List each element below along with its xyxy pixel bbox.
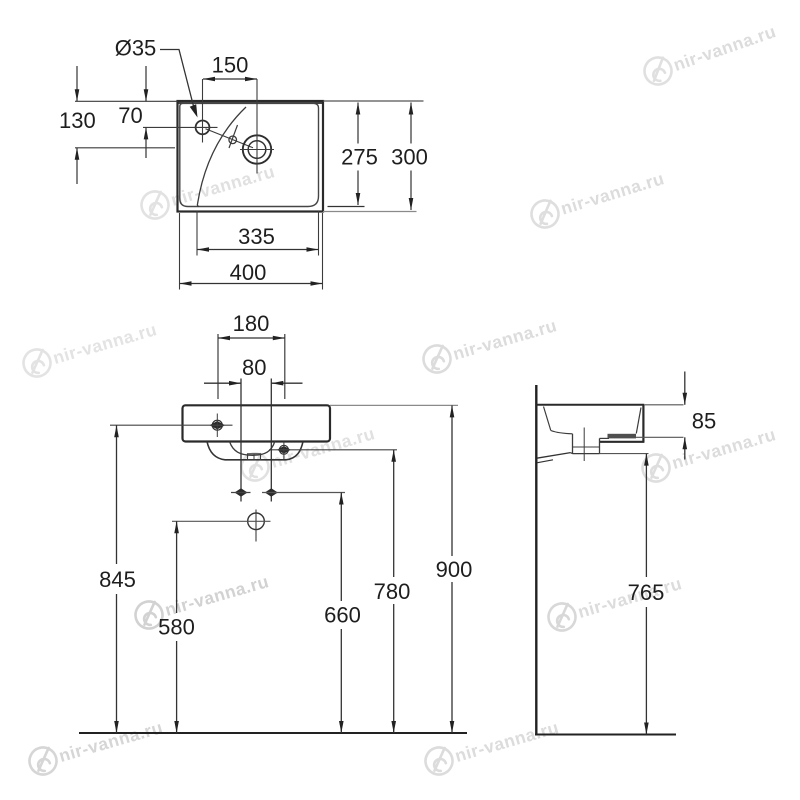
ext line bowl-left down <box>196 211 198 256</box>
dim 150 right arrow <box>245 77 257 82</box>
inner left wall side <box>544 407 551 431</box>
dim 300 line <box>410 103 412 144</box>
faucet hole vertical centerline / extension to 150 dim <box>202 79 204 143</box>
svg-text:660: 660 <box>324 602 361 627</box>
svg-text:900: 900 <box>436 557 473 582</box>
drain seal dark bar <box>608 434 637 439</box>
watermark 8 <box>545 570 685 634</box>
dim 80 left arrow <box>204 382 241 384</box>
dim 70 bottom arrow <box>145 127 147 158</box>
watermark 1 <box>641 18 780 88</box>
faucet hole marker front <box>212 420 222 430</box>
top edge extension right <box>323 100 424 102</box>
180 dim extension left <box>217 334 219 399</box>
floor line side <box>535 734 676 736</box>
dim 275 line <box>357 103 359 144</box>
svg-text:180: 180 <box>233 311 270 336</box>
svg-text:275: 275 <box>341 144 378 169</box>
basin outer rect (plan) <box>178 101 324 212</box>
SIDEVIEW <box>535 372 716 735</box>
drain pipe left wall <box>572 434 574 454</box>
drain outlet circle front <box>248 513 265 530</box>
wall line <box>535 385 537 735</box>
ext line outer-left down <box>179 213 181 290</box>
drain inner circle <box>248 141 266 159</box>
basin inner rim (plan) <box>180 103 319 206</box>
Ø35 leader arrowhead <box>190 104 198 117</box>
drain outlet vertical centerline <box>255 510 257 542</box>
Ø35 leader line <box>160 50 195 111</box>
drain vertical centerline / extension to 150 dim <box>256 79 258 174</box>
bolt hole line / 660 reference <box>262 492 345 494</box>
ext line outer-right down <box>322 213 324 290</box>
inner bottom reference right <box>328 206 365 208</box>
svg-text:70: 70 <box>118 103 142 128</box>
inner right wall side <box>636 408 641 434</box>
dim 85 top arrow <box>684 372 686 405</box>
drain pipe right wall <box>599 438 601 453</box>
watermark 13 bottom middle <box>422 714 562 778</box>
drain slot under bowl <box>248 454 261 460</box>
watermark 3 <box>420 312 560 376</box>
drain pipe inner line <box>573 446 600 448</box>
outer right edge side <box>642 405 644 443</box>
watermark 6 <box>26 714 166 778</box>
lower reference line left <box>75 147 175 149</box>
dim 580 <box>176 521 178 613</box>
765 top reference <box>600 453 649 455</box>
svg-text:80: 80 <box>242 355 266 380</box>
drain outer circle <box>243 135 271 163</box>
svg-text:335: 335 <box>238 224 275 249</box>
dim 335 line <box>197 249 319 251</box>
underside line 1 <box>537 453 571 459</box>
180 dim extension right <box>284 334 286 399</box>
drain outlet horizontal centerline / 580 reference <box>172 520 271 522</box>
bowl underside outer <box>207 442 303 460</box>
dim 150 line <box>203 78 257 80</box>
watermark 12 left <box>20 316 160 380</box>
ext line inner-right down <box>318 211 320 256</box>
dim 765 <box>645 454 647 577</box>
dim 660 <box>340 493 342 602</box>
85 top reference <box>644 404 683 406</box>
dim 85 bottom arrow <box>684 437 686 459</box>
drain horizontal centerline <box>240 149 274 151</box>
faucet hole horizontal centerline <box>143 126 218 128</box>
watermark 7 <box>138 158 278 222</box>
watermark 2 <box>528 165 668 231</box>
dim 400 line <box>180 283 323 285</box>
svg-text:300: 300 <box>391 144 428 169</box>
overflow hole circle <box>229 136 237 144</box>
drain pipe bottom <box>573 453 600 455</box>
rim top side <box>536 404 644 406</box>
svg-text:780: 780 <box>374 579 411 604</box>
svg-text:130: 130 <box>59 108 96 133</box>
bowl underside inner arc <box>230 442 275 456</box>
underside line 2 <box>571 453 573 454</box>
dim 80 right arrow <box>271 382 302 384</box>
dim 70 top arrow <box>145 66 147 101</box>
dim 780 <box>393 450 395 577</box>
dim 180 line <box>218 337 285 339</box>
85 bottom reference <box>636 436 684 438</box>
FRONTVIEW <box>79 311 472 733</box>
watermark 9 <box>639 421 779 485</box>
diagonal centerline faucet to drain <box>206 129 254 148</box>
svg-text:845: 845 <box>99 567 136 592</box>
underside step near wall <box>537 460 553 463</box>
bolt hole extension line right <box>270 379 272 502</box>
svg-text:Ø35: Ø35 <box>115 36 157 61</box>
floor line front <box>79 732 467 734</box>
TOPVIEW <box>59 36 428 290</box>
overflow centerline / 780 reference <box>269 449 397 451</box>
outer bottom extension right <box>323 211 417 213</box>
overflow marker front <box>279 445 288 454</box>
dim 845 <box>116 425 118 564</box>
bolt hole marker left <box>235 488 248 496</box>
overflow hole slash <box>229 125 238 148</box>
dim 150 left arrow <box>203 77 215 82</box>
bowl wall curve (plan) <box>197 107 246 207</box>
dim 130 bottom arrow <box>76 148 78 184</box>
bolt hole marker right <box>265 488 278 496</box>
watermark 5 <box>132 568 272 632</box>
svg-text:85: 85 <box>692 409 716 434</box>
svg-text:150: 150 <box>212 53 249 78</box>
inner bottom side <box>551 431 573 434</box>
svg-text:765: 765 <box>628 580 665 605</box>
faucet hole circle <box>196 121 210 135</box>
bowl bottom right ledge <box>600 437 610 439</box>
drain axis <box>583 428 585 462</box>
dim 900 <box>451 405 453 556</box>
top edge extension left <box>75 100 178 102</box>
svg-text:580: 580 <box>158 614 195 639</box>
basin body front <box>183 405 331 441</box>
watermark 4 <box>238 420 378 484</box>
bolt hole extension line left <box>240 379 242 502</box>
outer bottom edge side <box>600 441 645 443</box>
dim 130 top arrow <box>76 66 78 101</box>
900 reference line (basin top right) <box>330 404 458 406</box>
svg-text:400: 400 <box>230 260 267 285</box>
faucet centerline / 845 reference <box>110 424 233 426</box>
